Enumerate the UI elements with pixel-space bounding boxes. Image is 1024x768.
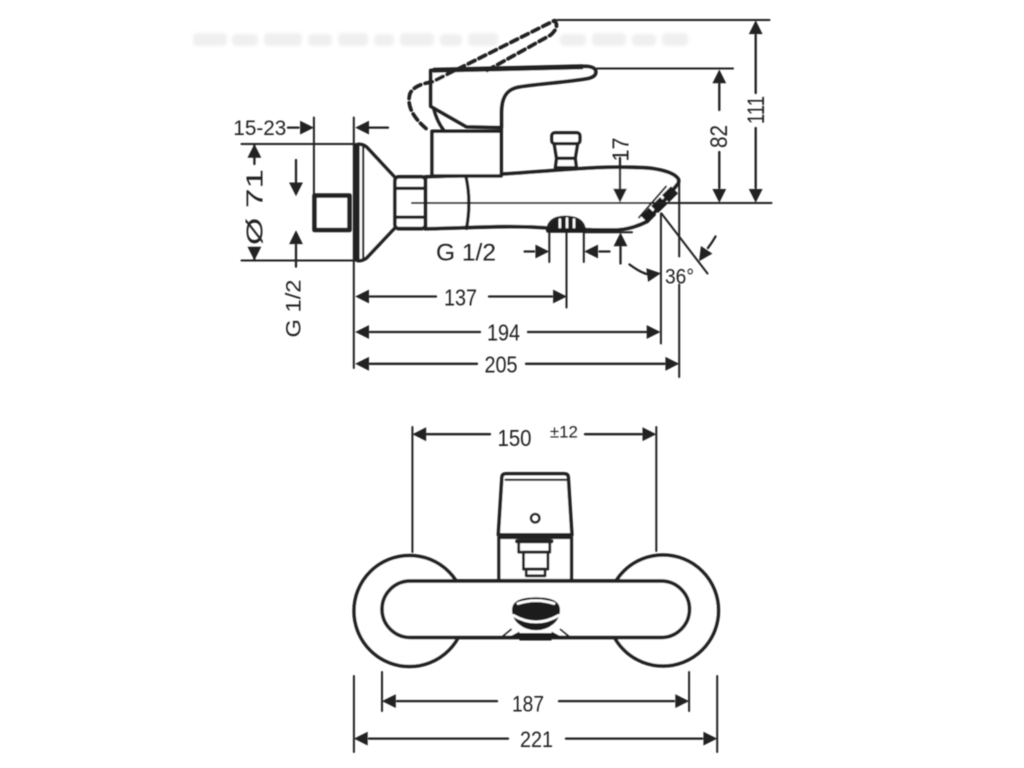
upper body right edge extension bbox=[500, 112, 504, 131]
dimension 221 bbox=[354, 732, 717, 746]
extension line shower knob center bbox=[566, 233, 568, 308]
right escutcheon circle bbox=[608, 555, 719, 666]
svg-text:G 1/2: G 1/2 bbox=[436, 240, 496, 267]
faint watermark remnant band bbox=[193, 33, 688, 46]
dimension O71 bbox=[248, 144, 262, 261]
reference line spout outlet level bbox=[412, 202, 772, 204]
extension line flange top bbox=[242, 143, 356, 145]
aerator lower white arc bbox=[514, 616, 559, 623]
extension line wall plane bbox=[353, 118, 355, 369]
cartridge block front view bbox=[499, 538, 572, 581]
extension line shower knob base bbox=[585, 231, 633, 233]
aerator hatch bands on spout face bbox=[645, 190, 675, 220]
36 degree angle arc arrows bbox=[630, 237, 716, 282]
spout face inner rim line bbox=[639, 187, 666, 218]
spout cut face edge bbox=[646, 186, 677, 222]
svg-text:111: 111 bbox=[743, 96, 770, 124]
svg-text:±12: ±12 bbox=[550, 423, 578, 442]
dimension 150 bbox=[412, 427, 656, 441]
extension line spout tip upper bbox=[678, 179, 680, 257]
cartridge neck step 1 bbox=[519, 541, 550, 553]
aerator side flare left bbox=[501, 630, 512, 639]
body seam arc bbox=[466, 177, 469, 229]
aerator side flare right bbox=[561, 630, 572, 639]
dimension 187 bbox=[382, 694, 689, 708]
aerator side wedge left bbox=[508, 632, 520, 638]
extension line aerator outlet bbox=[660, 214, 662, 344]
left escutcheon circle bbox=[354, 556, 465, 667]
union nut / thread section bbox=[395, 177, 426, 229]
wall flange (escutcheon cone) bbox=[355, 144, 394, 260]
svg-text:Ø 71: Ø 71 bbox=[242, 169, 268, 245]
extension line flange bottom bbox=[242, 260, 356, 262]
wall connector square block bbox=[315, 196, 350, 230]
upper body (cartridge housing) bbox=[432, 131, 501, 176]
diverter knob cap (top of body) bbox=[552, 133, 580, 144]
aerator side wedge right bbox=[552, 632, 564, 638]
diverter knob middle bbox=[554, 144, 577, 159]
dimension G 1/2 shower outlet arrows bbox=[525, 245, 610, 259]
dimension 17 bbox=[613, 158, 627, 264]
extension line 221 right bbox=[716, 676, 718, 752]
dimension 15-23 bbox=[288, 121, 388, 135]
cartridge neck step 2 bbox=[523, 552, 548, 569]
svg-text:15-23: 15-23 bbox=[233, 116, 286, 140]
shower knob base bar bbox=[547, 228, 586, 233]
extension line spout tip lower bbox=[678, 285, 680, 378]
dimension 205 bbox=[355, 357, 679, 371]
mixer body (side view) bbox=[426, 167, 679, 230]
flange rim face band bbox=[355, 147, 360, 259]
diverter knob lower bbox=[555, 158, 576, 167]
extension line 187 left bbox=[381, 672, 383, 711]
36 degree slant line bbox=[662, 214, 708, 274]
svg-text:36°: 36° bbox=[665, 265, 694, 289]
extension line shower knob right bbox=[583, 233, 585, 263]
svg-text:205: 205 bbox=[485, 351, 518, 377]
aerator highlight arc bbox=[518, 601, 554, 604]
svg-text:G 1/2: G 1/2 bbox=[283, 280, 306, 338]
svg-text:17: 17 bbox=[608, 138, 634, 162]
extension line 187 right bbox=[688, 672, 690, 711]
reference line top (dashed handle tip level) bbox=[557, 19, 770, 21]
svg-text:194: 194 bbox=[487, 319, 520, 345]
extension line 150 right bbox=[655, 427, 657, 551]
dimension 137 bbox=[355, 290, 567, 304]
mixer body stadium bbox=[382, 581, 690, 638]
svg-text:150: 150 bbox=[498, 425, 532, 451]
extension line shower knob left bbox=[548, 233, 550, 263]
dimension wall block height arrows bbox=[289, 160, 303, 267]
aerator front view black cup bbox=[512, 597, 560, 630]
aerator base bar bbox=[520, 633, 552, 641]
cartridge neck step 3 bbox=[526, 569, 545, 576]
reference line handle tip level bbox=[597, 68, 733, 70]
dimension 194 bbox=[355, 325, 660, 339]
svg-text:82: 82 bbox=[706, 125, 733, 148]
svg-text:137: 137 bbox=[444, 284, 477, 310]
dimension 82 bbox=[712, 70, 726, 203]
flange rim inner line bbox=[362, 146, 364, 259]
handle top face lip bbox=[433, 67, 583, 71]
svg-text:187: 187 bbox=[512, 691, 544, 716]
dimension 111 bbox=[749, 20, 763, 203]
extension line 221 left bbox=[353, 676, 355, 752]
shower hose connection knob (bottom of body) bbox=[548, 217, 585, 230]
lever handle raised (dashed position) bbox=[409, 21, 556, 129]
handle dot bbox=[531, 514, 539, 522]
svg-text:221: 221 bbox=[520, 727, 553, 752]
handle front view bbox=[498, 474, 572, 535]
handle top face line bbox=[506, 479, 567, 481]
lever handle (closed position) bbox=[431, 66, 596, 127]
extension line wall block left bbox=[313, 118, 315, 197]
handle pivot arc bbox=[434, 108, 445, 131]
extension line 150 left bbox=[411, 427, 413, 552]
